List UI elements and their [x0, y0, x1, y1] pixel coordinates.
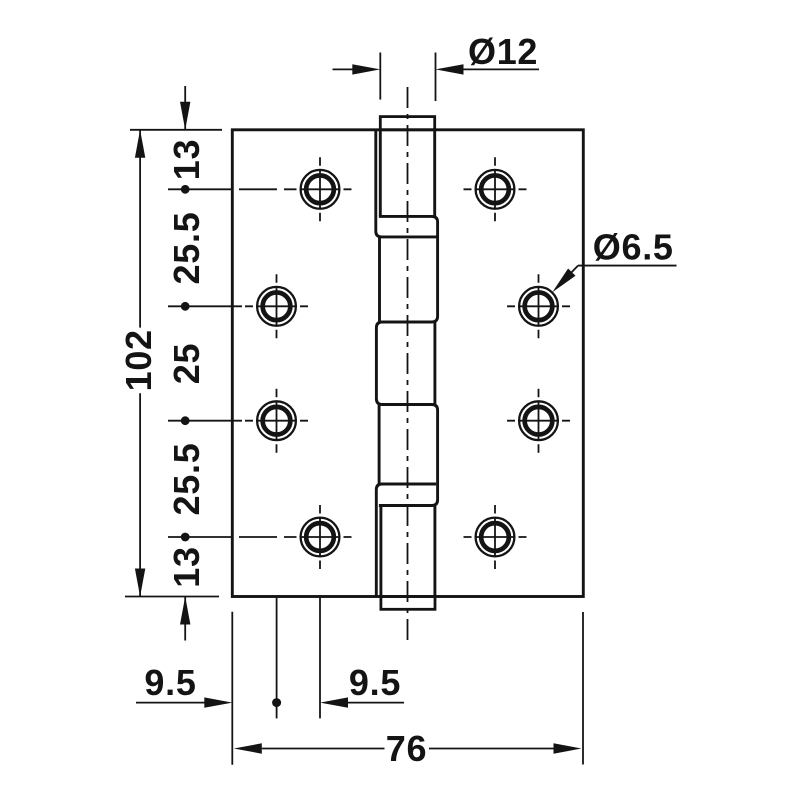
svg-text:13: 13 — [166, 546, 207, 587]
svg-text:9.5: 9.5 — [144, 662, 196, 703]
svg-text:76: 76 — [386, 728, 427, 769]
svg-text:102: 102 — [118, 329, 159, 391]
svg-text:13: 13 — [166, 139, 207, 180]
svg-text:Ø12: Ø12 — [468, 31, 538, 72]
svg-text:Ø6.5: Ø6.5 — [593, 227, 674, 268]
svg-text:25.5: 25.5 — [166, 212, 207, 285]
svg-text:25: 25 — [166, 343, 207, 384]
svg-text:25.5: 25.5 — [166, 443, 207, 516]
svg-text:9.5: 9.5 — [349, 662, 401, 703]
